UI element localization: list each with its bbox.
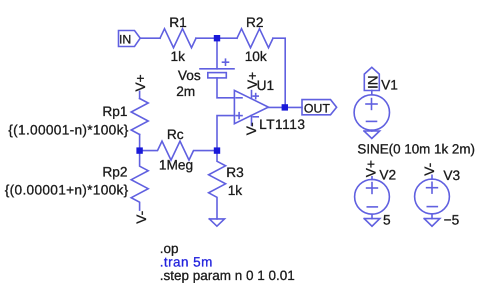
wire	[217, 78, 234, 98]
svg-text:V+: V+	[363, 160, 378, 177]
svg-text:IN: IN	[119, 33, 131, 47]
resistor R3	[209, 151, 226, 219]
wire	[431, 175, 433, 179]
resistor R2	[237, 29, 273, 48]
svg-text:V+: V+	[133, 74, 148, 91]
ground below R3	[209, 219, 224, 226]
node junction B (output)	[282, 104, 288, 110]
voltage source V2 circle	[355, 179, 390, 214]
op-amp U1 V+ power pin	[251, 91, 253, 99]
op-amp U1 V- power pin	[251, 115, 253, 125]
svg-text:−5: −5	[444, 212, 460, 227]
resistor R1	[160, 29, 196, 48]
svg-text:V-: V-	[422, 163, 437, 176]
svg-text:V1: V1	[381, 77, 398, 92]
svg-text:V-: V-	[244, 122, 259, 135]
svg-text:SINE(0 10m 1k 2m): SINE(0 10m 1k 2m)	[357, 141, 475, 156]
node junction D	[214, 147, 220, 153]
wire	[216, 38, 218, 69]
svg-text:Vos: Vos	[178, 68, 201, 83]
svg-text:Rp1: Rp1	[102, 104, 127, 119]
port OUT	[302, 100, 337, 115]
flag IN pentagon on V1	[364, 67, 379, 90]
wire	[268, 106, 302, 108]
op-amp U1 inverting input mark	[236, 97, 242, 99]
svg-text:V2: V2	[379, 167, 396, 182]
node junction A	[214, 35, 220, 41]
svg-text:Rc: Rc	[167, 127, 184, 142]
svg-text:OUT: OUT	[304, 102, 330, 116]
node junction C	[136, 147, 142, 153]
voltage source V3 circle	[415, 179, 450, 214]
voltage source Vos battery plates	[200, 68, 234, 70]
ground below V2	[371, 214, 373, 218]
wire	[139, 135, 141, 151]
svg-text:10k: 10k	[245, 49, 267, 64]
svg-text:1k: 1k	[171, 49, 186, 64]
wire	[273, 38, 285, 107]
resistor Rp2	[131, 151, 148, 211]
wire	[371, 91, 373, 95]
port IN	[119, 31, 141, 47]
svg-text:LT1113: LT1113	[259, 117, 305, 132]
svg-text:2m: 2m	[176, 84, 195, 99]
svg-text:5: 5	[383, 212, 391, 227]
svg-text:V-: V-	[134, 211, 149, 224]
op-amp U1 non-inverting input mark	[236, 115, 242, 117]
svg-text:IN: IN	[365, 75, 380, 89]
svg-text:R1: R1	[169, 15, 187, 30]
svg-text:{(1.00001-n)*100k}: {(1.00001-n)*100k}	[8, 122, 128, 137]
voltage source V1 circle	[354, 95, 389, 130]
svg-text:R3: R3	[226, 165, 244, 180]
wire	[140, 37, 160, 39]
svg-text:.step param n 0 1 0.01: .step param n 0 1 0.01	[160, 268, 295, 283]
svg-text:1Meg: 1Meg	[159, 158, 193, 173]
resistor Rp1	[131, 99, 148, 135]
svg-text:Rp2: Rp2	[102, 164, 127, 179]
wire	[196, 37, 237, 39]
wire to op-amp non-inverting input	[217, 116, 234, 151]
ground below V1	[371, 129, 373, 132]
svg-text:{(0.00001+n)*100k}: {(0.00001+n)*100k}	[5, 183, 129, 198]
svg-text:1k: 1k	[228, 183, 243, 198]
wire	[139, 91, 141, 98]
svg-text:V+: V+	[245, 72, 260, 89]
svg-text:R2: R2	[246, 15, 264, 30]
ground below V3	[431, 214, 433, 219]
svg-text:V3: V3	[443, 168, 460, 183]
resistor Rc	[140, 141, 217, 160]
op-amp U1 triangle	[234, 90, 268, 123]
wire	[371, 177, 373, 180]
